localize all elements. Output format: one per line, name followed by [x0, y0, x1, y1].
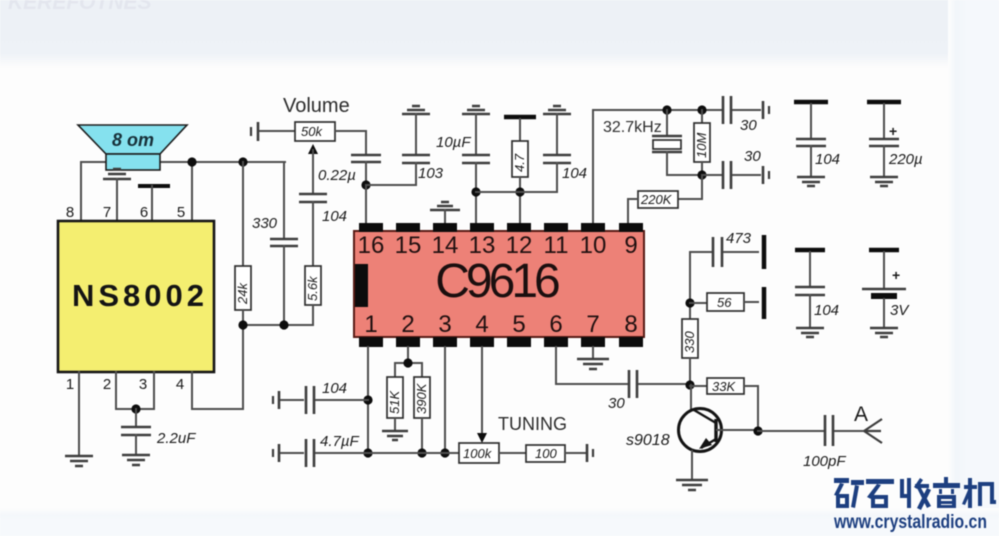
ground pin7: [577, 347, 609, 369]
wire pin4 wiper: [477, 347, 487, 443]
battery 3V: [862, 250, 910, 337]
wire pin8 NS8002: [80, 162, 82, 221]
svg-text:30: 30: [740, 117, 757, 134]
svg-text:16: 16: [358, 232, 385, 259]
wire pins2-3 join: [116, 372, 154, 427]
svg-text:s9018: s9018: [626, 432, 670, 449]
crystal 32.7kHz: [603, 105, 702, 175]
potentiometer Volume 50k: [251, 95, 366, 194]
node pin6 bar: [138, 186, 170, 221]
svg-text:32.7kHz: 32.7kHz: [603, 119, 662, 136]
ground (inverted) pin14: [430, 202, 460, 226]
capacitor 473: [713, 230, 764, 269]
resistor 390K: [414, 377, 430, 458]
svg-text:TUNING: TUNING: [498, 414, 567, 434]
capacitor 330: [252, 162, 298, 325]
wire pin6 to 30: [556, 347, 627, 384]
svg-text:4: 4: [176, 376, 184, 393]
capacitor 10uF: [436, 106, 490, 226]
svg-text:KEREFOTNES: KEREFOTNES: [8, 0, 152, 14]
capacitor 104 top: [476, 106, 587, 192]
wire pin4 up: [192, 325, 243, 409]
svg-text:2.2uF: 2.2uF: [156, 430, 196, 447]
speaker LS1 8 ohm: [78, 125, 187, 170]
svg-text:+: +: [889, 123, 897, 139]
wire pin3 down: [440, 347, 449, 458]
svg-text:0.22µ: 0.22µ: [318, 167, 356, 184]
svg-text:104: 104: [322, 380, 347, 397]
svg-text:www.crystalradio.cn: www.crystalradio.cn: [833, 512, 987, 533]
resistor 5.6k: [305, 266, 321, 325]
svg-text:100: 100: [535, 446, 557, 461]
svg-text:4.7: 4.7: [512, 153, 527, 172]
wire pin2 split: [395, 347, 422, 377]
svg-text:5: 5: [512, 311, 525, 338]
svg-text:A: A: [854, 403, 868, 426]
svg-text:104: 104: [814, 302, 839, 319]
svg-text:5.6k: 5.6k: [305, 275, 320, 301]
node collector: [753, 426, 823, 435]
svg-text:NS8002: NS8002: [72, 278, 208, 313]
svg-text:50k: 50k: [301, 124, 323, 139]
capacitor 220u: [867, 102, 923, 186]
svg-text:4: 4: [475, 311, 488, 338]
svg-text:10: 10: [580, 232, 607, 259]
potentiometer TUNING 100k: [368, 414, 567, 463]
svg-text:8: 8: [624, 311, 637, 338]
ground emitter: [676, 480, 708, 490]
svg-text:33K: 33K: [712, 379, 736, 394]
ground (inverted) pin7: [103, 169, 131, 221]
svg-text:330: 330: [682, 331, 697, 353]
svg-text:330: 330: [252, 215, 278, 232]
capacitor 104 topright: [794, 102, 840, 186]
svg-text:8 om: 8 om: [112, 130, 154, 150]
svg-text:473: 473: [726, 230, 752, 247]
antenna A: [854, 403, 882, 443]
svg-text:56: 56: [717, 295, 732, 310]
wire pin1 to ground: [78, 372, 80, 455]
resistor 220K: [628, 175, 702, 226]
resistor 33K: [690, 378, 758, 431]
svg-text:220K: 220K: [640, 192, 673, 207]
resistor 10M: [694, 105, 710, 179]
svg-text:Volume: Volume: [283, 95, 350, 117]
capacitor 104 in: [273, 380, 368, 414]
wire bottom join 24k/330/5.6k: [238, 320, 313, 329]
resistor 56: [690, 287, 764, 319]
ground pin1: [65, 456, 93, 466]
svg-text:8: 8: [66, 204, 74, 221]
IC NS8002: [58, 204, 214, 393]
svg-text:220µ: 220µ: [888, 151, 923, 168]
svg-text:C9616: C9616: [435, 255, 559, 308]
svg-text:51K: 51K: [387, 390, 402, 414]
svg-text:6: 6: [140, 204, 148, 221]
wire pin1 down: [363, 347, 372, 458]
svg-text:100pF: 100pF: [803, 453, 846, 470]
svg-text:1: 1: [364, 311, 377, 338]
svg-text:6: 6: [549, 311, 562, 338]
svg-text:104: 104: [562, 165, 587, 182]
capacitor 103: [402, 106, 444, 185]
capacitor 30 lower: [702, 148, 769, 189]
svg-text:7: 7: [103, 204, 111, 221]
svg-text:5: 5: [177, 204, 185, 221]
ground 2.2uF: [122, 455, 150, 465]
watermark logo: [834, 477, 996, 510]
svg-text:3: 3: [139, 376, 147, 393]
wire node pin16: [361, 180, 416, 226]
wire 473 column: [685, 252, 711, 319]
resistor 330: [682, 319, 698, 390]
svg-text:3V: 3V: [890, 302, 910, 319]
capacitor 100pF: [803, 415, 864, 470]
svg-text:10µF: 10µF: [436, 134, 471, 151]
svg-text:30: 30: [608, 395, 625, 412]
IC C9616: [354, 223, 644, 347]
svg-text:104: 104: [322, 208, 347, 225]
capacitor 104 wiper: [299, 194, 347, 266]
svg-text:30: 30: [744, 148, 761, 165]
svg-text:7: 7: [586, 311, 599, 338]
svg-text:390K: 390K: [414, 382, 429, 414]
svg-text:104: 104: [815, 151, 840, 168]
svg-text:1: 1: [66, 376, 74, 393]
ground 51K: [382, 431, 408, 440]
svg-text:103: 103: [418, 165, 444, 182]
svg-text:15: 15: [395, 232, 422, 259]
watermark url: [833, 512, 987, 533]
capacitor 30 base: [608, 370, 691, 412]
svg-text:24k: 24k: [235, 282, 250, 305]
capacitor 0.22u: [318, 131, 381, 185]
svg-text:+: +: [892, 267, 900, 283]
capacitor 30 top: [723, 96, 769, 134]
svg-text:9: 9: [624, 232, 637, 259]
svg-text:10M: 10M: [694, 133, 709, 158]
resistor 100: [526, 444, 593, 462]
resistor 51K: [387, 377, 403, 430]
capacitor 104 midright: [795, 250, 839, 337]
transistor s9018: [626, 385, 758, 478]
wire pin10 crystal rail: [593, 110, 723, 226]
capacitor 4.7uF in: [273, 433, 368, 467]
svg-text:3: 3: [438, 311, 451, 338]
capacitor 2.2uF: [121, 427, 196, 454]
svg-text:4.7µF: 4.7µF: [320, 433, 359, 450]
svg-text:2: 2: [401, 311, 414, 338]
resistor 24k: [235, 157, 251, 325]
resistor 4.7: [504, 117, 536, 226]
svg-text:100k: 100k: [463, 446, 493, 461]
wire pin5: [187, 157, 196, 221]
wire speaker rail: [81, 161, 285, 163]
svg-text:2: 2: [103, 376, 111, 393]
